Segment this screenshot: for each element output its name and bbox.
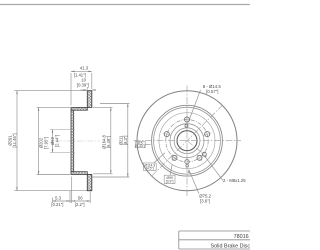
svg-text:[0.57"]: [0.57"] (206, 89, 218, 94)
title block frame (179, 231, 250, 249)
svg-text:[2.44"]: [2.44"] (55, 135, 60, 147)
disc face bottom extension line (89, 192, 91, 204)
dia 291 dim line (16, 91, 18, 191)
leader bolt circle box (154, 153, 165, 163)
svg-text:[0.33"]: [0.33"] (135, 144, 145, 148)
dia 164.8 bottom extension line (93, 173, 113, 175)
dim 5.3 and 56 line (53, 200, 91, 202)
dim extension at x70 (69, 191, 71, 203)
dia 99 circle (170, 124, 204, 158)
dia 202 dim line (38, 107, 40, 174)
svg-text:5.3: 5.3 (55, 196, 61, 201)
top border line (0, 4, 250, 6)
ring ID circle (159, 113, 215, 169)
radial construction line to M8 hole (187, 141, 207, 157)
dim 10 left arrow line (81, 89, 87, 91)
OD circle (137, 91, 237, 191)
bore bottom extension line (50, 152, 75, 154)
hat top wall (71, 107, 87, 110)
center cross lines (134, 86, 242, 197)
svg-text:[4.5"]: [4.5"] (146, 167, 154, 171)
bolt circle (dash-dot) (166, 120, 208, 162)
flange face extension line (70, 73, 72, 106)
svg-text:[8.3"]: [8.3"] (123, 136, 128, 145)
svg-text:41.3: 41.3 (80, 66, 89, 71)
svg-text:[3.9"]: [3.9"] (166, 179, 174, 183)
flange face bottom extension line (71, 177, 73, 204)
centerline axis (56, 140, 100, 142)
bore top extension line (50, 129, 75, 131)
svg-text:[0.21"]: [0.21"] (51, 202, 63, 207)
dia 164.8 dim line (110, 107, 112, 173)
svg-text:78016: 78016 (234, 234, 249, 240)
face view left dim dia233 (93, 104, 130, 178)
leader min thickness box (145, 143, 150, 145)
dia 164.8 top extension line (93, 106, 113, 108)
hat circle outer (152, 105, 223, 176)
diagonal construction line 45deg (152, 105, 223, 176)
svg-text:[6.49"]: [6.49"] (106, 136, 111, 148)
labels with leaders (152, 105, 223, 176)
disc ring bottom bar (87, 175, 92, 191)
leader dia 99 box (170, 165, 172, 176)
dia 202 bottom extension line (37, 174, 70, 176)
dim 41.3 line (71, 70, 92, 72)
dia 291 top extension line (14, 90, 87, 92)
leader M8 label (205, 156, 224, 181)
mounting flange (71, 110, 74, 172)
hat bottom wall (71, 172, 87, 175)
dia 62 dim line (52, 130, 54, 153)
leader bolt hole label (188, 90, 200, 122)
boxed labels (135, 141, 175, 183)
svg-text:2 - M8x1.25: 2 - M8x1.25 (223, 178, 246, 183)
dia 75 circle (174, 128, 200, 154)
arrowheads (16, 71, 111, 202)
svg-text:Solid Brake Disc: Solid Brake Disc (211, 243, 251, 249)
dim 10 right arrow line (92, 89, 95, 91)
center bore (177, 131, 197, 151)
svg-text:[3.6"]: [3.6"] (200, 199, 210, 204)
bolt holes (164, 117, 209, 160)
dia 202 top extension line (37, 106, 70, 108)
svg-text:56: 56 (78, 196, 83, 201)
small crosshair ticks on holes (163, 115, 211, 168)
hat circle inner (154, 107, 221, 174)
M8 service holes (185, 124, 188, 127)
svg-text:[11.46"]: [11.46"] (12, 134, 17, 148)
leader dia 75.2 label (189, 170, 199, 194)
svg-text:[7.95"]: [7.95"] (43, 137, 48, 149)
dia 291 bottom extension line (14, 190, 87, 192)
svg-text:[2.2"]: [2.2"] (75, 202, 85, 207)
disc outboard face extension line (91, 73, 93, 89)
dim 5.3 left extension line (52, 198, 54, 204)
svg-text:[0.39"]: [0.39"] (77, 82, 89, 87)
disc ring top bar (87, 91, 92, 108)
disc inboard face extension line (86, 87, 88, 90)
dimension text labels left view (8, 66, 111, 207)
